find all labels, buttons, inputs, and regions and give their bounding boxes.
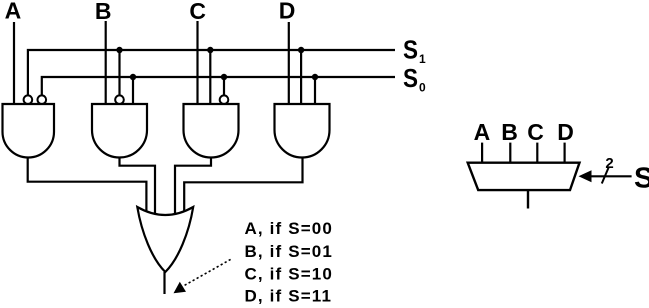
and-gate G1: [3, 104, 55, 158]
wire G4 output: [184, 158, 302, 213]
and-gate G4: [275, 104, 330, 158]
inverter bubble G2-S1: [115, 95, 124, 104]
inverter bubble G1-S0: [38, 95, 47, 104]
wire mux output: [527, 190, 529, 208]
wire G2 output: [120, 158, 156, 214]
svg-text:S: S: [403, 63, 418, 93]
wire select S: [590, 175, 632, 177]
svg-text:1: 1: [419, 52, 426, 66]
wire mux input B: [509, 143, 511, 163]
junction S1-gate3: [207, 47, 213, 104]
and-gate G3: [184, 104, 239, 157]
and-gate G2: [92, 104, 147, 157]
output annotation arrow: [174, 259, 231, 293]
svg-text:D: D: [279, 0, 296, 24]
svg-text:C: C: [189, 0, 206, 24]
wire S1 rail: [28, 50, 395, 96]
inverter bubble G1-S1: [24, 95, 33, 104]
junction S1-gate4: [298, 47, 304, 104]
label S0: [403, 63, 426, 95]
wire input C: [196, 21, 198, 104]
wire input B: [105, 21, 107, 104]
svg-text:A, if S=00: A, if S=00: [245, 219, 334, 238]
wire input A: [13, 22, 15, 104]
junction S0-gate4: [312, 74, 318, 104]
svg-text:A: A: [5, 0, 22, 24]
svg-text:0: 0: [419, 81, 426, 95]
label S1: [403, 35, 426, 67]
wire mux input D: [563, 143, 565, 163]
inverter bubble G3-S0: [220, 95, 229, 104]
output annotation text: [245, 219, 334, 306]
bus-width slash: [602, 168, 609, 184]
wire output: [163, 272, 165, 294]
svg-text:C: C: [527, 119, 544, 145]
wire G3 output: [175, 158, 211, 214]
svg-text:2: 2: [605, 155, 613, 172]
wire G1 output: [28, 157, 147, 212]
svg-text:D: D: [557, 119, 574, 145]
svg-text:B: B: [95, 0, 112, 24]
wire mux input A: [481, 143, 483, 163]
or-gate: [137, 207, 193, 272]
multiplexer body: [468, 163, 580, 190]
wire mux input C: [536, 143, 538, 163]
junction S0-gate3: [221, 74, 227, 96]
svg-text:B, if S=01: B, if S=01: [245, 242, 334, 261]
svg-text:A: A: [474, 119, 491, 145]
junction S0-gate2: [130, 74, 136, 104]
svg-text:S: S: [403, 35, 418, 65]
svg-text:B: B: [501, 119, 518, 145]
svg-text:D, if S=11: D, if S=11: [245, 287, 333, 306]
select arrowhead: [579, 170, 592, 182]
svg-text:C, if S=10: C, if S=10: [245, 264, 334, 283]
wire input D: [288, 22, 290, 104]
wire S0 rail: [42, 77, 395, 96]
junction S1-gate2: [116, 47, 122, 96]
svg-text:S: S: [634, 162, 649, 194]
